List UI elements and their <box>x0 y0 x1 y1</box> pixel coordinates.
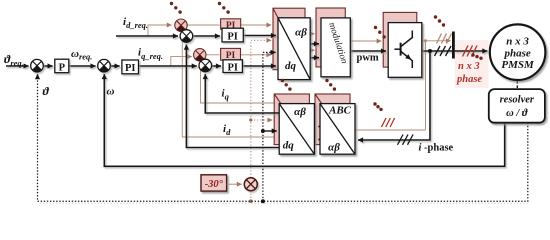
wire shadow i_q_req to shadow q-sum <box>171 57 192 66</box>
svg-text:PI: PI <box>125 63 136 74</box>
svg-text:pwm: pwm <box>357 53 379 64</box>
shadow sum circle q <box>194 49 206 61</box>
shadow transform block row2 right ABC <box>315 94 350 145</box>
dots shadow i-phase <box>373 102 376 105</box>
slash marks shadow line brown <box>437 34 452 44</box>
wire PMSM to resolver dashed <box>516 81 518 89</box>
wire theta into -30 multiplier from bottom <box>250 191 252 201</box>
svg-text:ω: ω <box>107 86 115 98</box>
svg-text:PI: PI <box>227 62 238 73</box>
svg-text:-30°: -30° <box>205 179 224 190</box>
shadow modulation block <box>316 8 345 67</box>
slash marks i-phase black <box>398 135 414 145</box>
wire shadow d-PI to shadow dq block <box>241 24 272 26</box>
wire shadow d-sum to shadow d-PI <box>187 24 219 26</box>
wire i_d_req input <box>116 35 178 37</box>
wire theta-30 branch to front-row2 shadow block <box>251 119 271 121</box>
dots after inverter <box>434 15 437 18</box>
svg-text:i -phase: i -phase <box>419 143 454 154</box>
junction shadow i-phase tap <box>424 39 427 42</box>
summing junction i_d <box>180 30 193 43</box>
svg-text:phase: phase <box>456 74 482 85</box>
-30 degree offset box <box>201 175 227 191</box>
wire shadow pwm <box>345 40 381 42</box>
junction i-phase tap <box>428 49 432 53</box>
svg-text:iq_req.: iq_req. <box>138 47 163 62</box>
summing junction omega <box>98 59 111 72</box>
wire dq to modulation bottom <box>310 57 319 59</box>
svg-text:resolver: resolver <box>500 95 535 106</box>
svg-text:dq: dq <box>285 60 297 72</box>
ABC to alphabeta block row2 <box>320 104 355 155</box>
junction brown theta-30 branch <box>249 118 252 121</box>
modulation block <box>321 18 350 77</box>
wire inverter to bus bar <box>422 50 452 52</box>
wire shadow dq block to shadow modulation bottom <box>305 49 314 51</box>
arrowhead theta-30 into shadow block row1 <box>269 39 272 41</box>
svg-text:phase: phase <box>503 48 530 60</box>
wire theta angle dotted vertical <box>263 52 274 201</box>
wire pwm modulation to inverter <box>350 50 386 52</box>
shadow sum circle d <box>175 19 187 31</box>
svg-text:ϑ: ϑ <box>43 84 50 98</box>
svg-text:n x 3: n x 3 <box>506 35 529 47</box>
wire i_d feedback <box>186 45 279 148</box>
shadow inverter block <box>383 12 417 67</box>
shadow PI box d <box>221 19 241 31</box>
summing junction theta <box>31 59 44 72</box>
bus bar <box>452 32 455 59</box>
wire theta-sum to P <box>43 65 52 67</box>
wire i_q_req PI to q-sum <box>139 65 197 67</box>
arrowhead theta into theta-sum <box>37 74 39 76</box>
wire ABC to alphabeta top arrow <box>318 126 319 128</box>
slash marks pwm-bus black <box>435 46 452 56</box>
junction theta tap on bottom line <box>261 199 265 203</box>
multiplier circle <box>244 178 257 191</box>
wire theta branch into dq row2 <box>263 130 277 132</box>
wire -30 into multiplier <box>227 183 242 185</box>
shadow transform block row2 left <box>274 94 309 145</box>
wire q-sum to q-PI <box>212 65 221 67</box>
arrowhead theta-30 into shadow block row2 <box>270 119 273 121</box>
wire shadow i-phase feedback <box>351 41 426 130</box>
wire i_q feedback <box>205 74 279 113</box>
wire shadow dq block to shadow modulation top <box>305 33 314 35</box>
wire theta_req input <box>6 65 29 67</box>
svg-text:id: id <box>223 123 231 137</box>
wire theta-30 dotted vertical <box>251 40 270 178</box>
wire shadow i_d feedback <box>182 33 274 137</box>
svg-text:αβ: αβ <box>294 106 306 118</box>
slash marks shadow i-phase red <box>382 118 395 127</box>
dots above row2 block1 <box>281 79 284 82</box>
svg-text:ω / ϑ: ω / ϑ <box>506 108 528 119</box>
arrowhead theta into dq row1 <box>273 51 276 53</box>
summing junction i_q <box>199 59 212 72</box>
grey shadow of bottom dotted wire <box>40 202 529 204</box>
wire shadow i_d_req to shadow d-sum <box>148 25 172 36</box>
dots above d-sum <box>170 2 173 5</box>
svg-text:ABC: ABC <box>328 105 352 117</box>
transistor symbol <box>394 31 412 69</box>
svg-text:iq: iq <box>222 88 230 102</box>
wire theta feedback dotted from resolver <box>38 75 528 201</box>
PI controller box q <box>223 60 242 74</box>
inverter block <box>388 23 422 78</box>
P controller box <box>55 59 69 73</box>
dq to alphabeta block row1 <box>278 18 310 80</box>
wire bus bar to PMSM <box>455 50 488 52</box>
dots before inverter <box>374 26 377 29</box>
junction brown theta tap on bottom line <box>249 199 253 203</box>
wire shadow q-sum to shadow q-PI <box>206 54 219 56</box>
svg-text:PMSM: PMSM <box>501 59 535 71</box>
wire dq to modulation top <box>310 43 319 45</box>
svg-text:ϑreq.: ϑreq. <box>4 52 24 68</box>
wire omega_req P to omega-sum <box>69 65 96 67</box>
dots above row2 block2 <box>325 79 328 82</box>
wire q-PI to dq block <box>242 65 276 67</box>
wire d-sum to d-PI <box>193 35 220 37</box>
svg-text:n x 3: n x 3 <box>458 61 480 72</box>
shadow transform block row1 <box>273 8 305 69</box>
pink highlight behind n x 3 phase annotation <box>455 40 489 88</box>
dots near PMSM <box>471 53 474 56</box>
wire shadow q-PI to shadow dq block <box>241 54 272 56</box>
svg-text:ωreq.: ωreq. <box>71 48 92 62</box>
wire shadow i_q feedback <box>201 63 275 103</box>
shadow PI box q <box>221 48 241 61</box>
svg-text:αβ: αβ <box>295 27 307 39</box>
resolver block <box>489 89 545 123</box>
wire d-PI to dq block <box>243 35 276 37</box>
wire shadow inverter out to bus bar <box>417 40 451 42</box>
svg-text:αβ: αβ <box>328 142 340 154</box>
wire i-phase feedback <box>358 51 430 140</box>
svg-text:PI: PI <box>227 31 238 42</box>
wire ABC to alphabeta bottom arrow <box>318 139 319 141</box>
junction theta branch to dq row2 <box>261 129 265 133</box>
PMSM circle <box>490 24 546 80</box>
PI controller box d <box>222 28 243 42</box>
dots above d-PI <box>218 2 221 5</box>
svg-text:P: P <box>59 62 66 73</box>
wire omega-sum to PI <box>111 65 120 67</box>
svg-text:dq: dq <box>283 140 295 152</box>
slash marks red n x 3 phase <box>463 46 478 57</box>
wire omega feedback <box>104 74 504 166</box>
alphabeta to dq block row2 <box>279 104 314 155</box>
svg-text:id_req.: id_req. <box>123 16 148 30</box>
PI controller box omega <box>122 60 139 74</box>
